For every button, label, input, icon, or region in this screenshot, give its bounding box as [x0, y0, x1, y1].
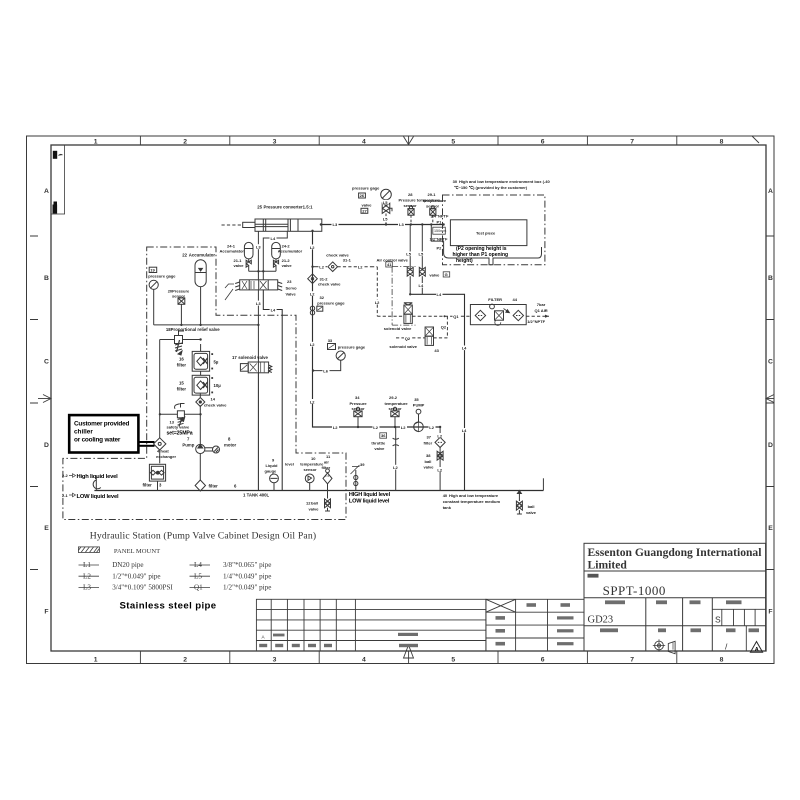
svg-text:High liquid level: High liquid level: [77, 474, 119, 480]
svg-text:valve: valve: [234, 263, 245, 268]
test tank under test piece: [444, 241, 542, 265]
svg-text:L2: L2: [310, 399, 315, 404]
svg-text:Accumulator: Accumulator: [220, 249, 245, 254]
svg-text:1/2"*0.049" pipe: 1/2"*0.049" pipe: [112, 572, 160, 580]
filter 6: [195, 480, 205, 491]
svg-text:safety valve: safety valve: [167, 425, 190, 430]
svg-text:39: 39: [360, 462, 365, 467]
approval table: [486, 599, 584, 651]
gauge manifold wire: [154, 324, 259, 326]
Q1 dashed air line: [377, 315, 549, 317]
zone numbers top: [44, 139, 773, 664]
valve 21-1: [246, 260, 251, 271]
svg-text:5: 5: [451, 139, 455, 146]
svg-text:31-1: 31-1: [343, 258, 352, 263]
svg-text:7: 7: [630, 139, 634, 146]
svg-text:sensor: sensor: [389, 406, 403, 411]
svg-text:sensor: sensor: [404, 203, 418, 208]
float sensor: [93, 477, 101, 491]
svg-text:High and low temperature envir: High and low temperature environment box…: [459, 179, 550, 184]
project name: [588, 574, 599, 578]
svg-text:throttle: throttle: [371, 440, 386, 445]
svg-text:1/2"*0.049" pipe: 1/2"*0.049" pipe: [223, 584, 271, 592]
safety valve 13: [160, 404, 201, 427]
svg-text:DN20 pipe: DN20 pipe: [112, 561, 143, 569]
temperature sensor 29-1: [430, 206, 436, 225]
air filter 11: [323, 469, 332, 491]
svg-text:Servo: Servo: [286, 285, 298, 290]
svg-text:23: 23: [287, 279, 292, 284]
svg-text:7: 7: [630, 657, 634, 664]
svg-text:37: 37: [427, 435, 432, 440]
svg-text:28: 28: [408, 192, 413, 197]
filter 3: [149, 464, 165, 490]
cylinder port B line: [263, 231, 287, 279]
svg-text:16: 16: [179, 357, 184, 362]
svg-text:7bar: 7bar: [537, 302, 546, 307]
revision table: [256, 599, 486, 651]
svg-text:℃~150 ℃) (provided by the cust: ℃~150 ℃) (provided by the customer): [454, 185, 528, 190]
svg-text:13: 13: [170, 419, 175, 424]
solenoid valve 43: [425, 327, 433, 345]
svg-text:10: 10: [311, 456, 316, 461]
solenoid valve 41: [404, 303, 412, 324]
svg-text:Accumulator: Accumulator: [189, 253, 216, 258]
svg-text:L4: L4: [271, 307, 276, 312]
svg-text:Pressure: Pressure: [350, 401, 368, 406]
svg-text:Accumulator: Accumulator: [278, 249, 303, 254]
svg-text:Q1 AIR: Q1 AIR: [535, 308, 548, 313]
svg-text:Q1: Q1: [453, 314, 459, 319]
svg-text:Customer provided: Customer provided: [74, 421, 129, 428]
svg-text:10µ: 10µ: [214, 383, 222, 388]
svg-text:Essenton Guangdong Internation: Essenton Guangdong International: [588, 546, 763, 559]
filter 16: [192, 344, 209, 371]
svg-text:15: 15: [179, 380, 184, 385]
servo valve 23: [225, 280, 282, 300]
svg-text:Q2: Q2: [405, 336, 411, 341]
chiller double pipe to heat exchanger: [139, 442, 155, 446]
svg-text:44: 44: [513, 297, 518, 302]
svg-text:1/4"*0.049" pipe: 1/4"*0.049" pipe: [223, 572, 271, 580]
svg-text:sensor: sensor: [304, 467, 318, 472]
svg-text:Limited: Limited: [588, 558, 628, 571]
svg-text:19: 19: [150, 267, 155, 272]
solenoid valve 17: [240, 362, 271, 491]
svg-text:Hydraulic Station (Pump Valve: Hydraulic Station (Pump Valve Cabinet De…: [90, 531, 317, 542]
svg-text:L5: L5: [383, 217, 388, 222]
zone ticks top: [30, 136, 774, 664]
svg-text:motor: motor: [224, 443, 237, 448]
L4 header to tank 40: [410, 294, 464, 490]
svg-text:3/8"*0.065" pipe: 3/8"*0.065" pipe: [223, 561, 271, 569]
svg-text:3/4"NPTF: 3/4"NPTF: [431, 213, 449, 218]
svg-text:22: 22: [182, 253, 187, 258]
test piece: [450, 220, 527, 246]
svg-text:air: air: [324, 460, 329, 465]
svg-text:exchanger: exchanger: [156, 454, 176, 459]
svg-text:2: 2: [183, 657, 187, 664]
svg-text:check valve: check valve: [318, 282, 341, 287]
svg-text:gauge: gauge: [265, 468, 278, 473]
svg-text:LOW liquid level: LOW liquid level: [77, 494, 119, 500]
svg-text:or cooling water: or cooling water: [74, 437, 121, 444]
svg-text:1 TANK 400L: 1 TANK 400L: [243, 492, 270, 497]
svg-text:D: D: [44, 442, 49, 449]
svg-text:pressure gage: pressure gage: [148, 274, 176, 279]
svg-text:solenoid valve: solenoid valve: [238, 355, 268, 360]
svg-text:pressure gage: pressure gage: [352, 185, 380, 190]
ball valve (tank 40 drain): [516, 491, 522, 515]
svg-text:18Proportional relief valve: 18Proportional relief valve: [166, 327, 220, 332]
svg-text:38: 38: [426, 453, 431, 458]
svg-text:E: E: [768, 525, 773, 532]
svg-text:solenoid valve: solenoid valve: [389, 344, 417, 349]
svg-text:solenoid valve: solenoid valve: [384, 326, 412, 331]
svg-text:26: 26: [360, 193, 365, 198]
svg-text:C: C: [44, 359, 49, 366]
svg-text:5: 5: [451, 657, 455, 664]
svg-text:Test piece: Test piece: [476, 230, 496, 235]
svg-text:SPPT-1000: SPPT-1000: [603, 583, 666, 598]
svg-text:41: 41: [387, 262, 392, 267]
accumulator 22: [195, 260, 206, 325]
svg-text:P2: P2: [437, 245, 443, 250]
pressure gage 32: [310, 306, 323, 315]
svg-text:A: A: [768, 188, 773, 195]
pressure sensor 34: [354, 407, 362, 427]
circulation line L2 (y=427) labels: [332, 425, 339, 430]
svg-text:P1: P1: [437, 219, 443, 224]
centering marks: [38, 136, 774, 658]
svg-text:PANEL MOUNT: PANEL MOUNT: [114, 548, 160, 555]
svg-text:L2: L2: [401, 425, 406, 430]
check valve 14: [196, 394, 205, 407]
svg-text:L5: L5: [419, 252, 424, 257]
svg-text:sensor: sensor: [352, 406, 366, 411]
svg-text:E: E: [44, 525, 49, 532]
svg-text:filter: filter: [322, 465, 331, 470]
svg-text:L2: L2: [310, 245, 315, 250]
throttle valve 36: [393, 427, 399, 491]
ball valve 38: [437, 451, 443, 460]
svg-text:GD23: GD23: [588, 614, 614, 625]
svg-text:valve: valve: [526, 510, 537, 515]
heat exchanger 4: [154, 438, 166, 464]
svg-text:1: 1: [94, 657, 98, 664]
svg-text:F: F: [44, 609, 48, 616]
svg-text:FILTER: FILTER: [488, 297, 502, 302]
temperature sensor 29-2: [391, 407, 399, 427]
svg-text:L5: L5: [383, 200, 388, 205]
check valve 31-2: [308, 274, 318, 284]
svg-text:height): height): [456, 258, 473, 264]
svg-text:heat: heat: [161, 449, 170, 454]
svg-text:B: B: [44, 275, 49, 282]
valve 42a drop: [407, 225, 413, 295]
pressure temperature sensor 28: [408, 206, 414, 225]
svg-text:L2: L2: [358, 265, 363, 270]
svg-text:ball: ball: [311, 501, 318, 506]
svg-text:35: 35: [414, 397, 419, 402]
svg-text:14: 14: [211, 397, 216, 402]
svg-text:ball: ball: [425, 459, 432, 464]
svg-text:6: 6: [541, 657, 545, 664]
svg-text:C: C: [768, 359, 773, 366]
svg-text:3: 3: [273, 139, 277, 146]
svg-text:valve: valve: [374, 446, 385, 451]
svg-text:check valve: check valve: [204, 402, 227, 407]
svg-text:ball: ball: [528, 504, 535, 509]
third angle projection symbol: [653, 639, 675, 653]
svg-text:set=25MPa: set=25MPa: [167, 430, 193, 436]
filter 37: [435, 427, 445, 491]
svg-text:Stainless steel pipe: Stainless steel pipe: [120, 601, 217, 612]
check valve 31-1: [313, 262, 378, 316]
piston rod dashed stub: [222, 224, 243, 226]
svg-text:L3: L3: [333, 222, 338, 227]
svg-text:temperature: temperature: [423, 198, 447, 203]
svg-text:L6: L6: [323, 369, 328, 374]
svg-text:L4: L4: [271, 236, 276, 241]
svg-text:36: 36: [381, 433, 386, 438]
svg-text:filter: filter: [177, 363, 187, 368]
svg-text:1/2"NPTF: 1/2"NPTF: [430, 236, 448, 241]
svg-text:pressure gage: pressure gage: [317, 301, 345, 306]
svg-text:L4: L4: [419, 283, 424, 288]
pressure sensor 20: [178, 298, 185, 325]
environment box 30: [443, 195, 545, 265]
valve 42b drop: [419, 225, 425, 295]
svg-text:40: 40: [443, 493, 448, 498]
svg-text:A: A: [755, 647, 759, 653]
svg-text:G: G: [445, 272, 448, 277]
pressure gage 33: [313, 344, 345, 371]
svg-text:L4: L4: [462, 428, 467, 433]
svg-text:L2: L2: [375, 300, 380, 305]
svg-text:17: 17: [232, 355, 237, 360]
svg-text:level: level: [285, 461, 294, 466]
svg-text:8: 8: [720, 139, 724, 146]
tank 1 top line: [94, 490, 543, 492]
ball valve 12: [325, 491, 331, 512]
svg-text:29-2: 29-2: [389, 395, 398, 400]
svg-text:filter: filter: [209, 483, 219, 488]
svg-text:sensor: sensor: [426, 204, 440, 209]
svg-text:L2: L2: [437, 433, 442, 438]
pressure gage 19: [149, 267, 158, 325]
cylinder port A line: [257, 231, 259, 279]
svg-text:3: 3: [273, 657, 277, 664]
svg-text:A: A: [44, 188, 49, 195]
pump 7: [196, 405, 205, 480]
svg-text:L2: L2: [437, 467, 442, 472]
svg-text:30: 30: [453, 179, 458, 184]
svg-text:constant temperature medium: constant temperature medium: [443, 499, 501, 504]
svg-text:L3: L3: [256, 245, 261, 250]
pressure converter 25 cylinder: [243, 219, 322, 231]
corner reference box: [51, 145, 65, 214]
svg-text:pressure gage: pressure gage: [338, 344, 366, 349]
svg-text:chiller: chiller: [74, 429, 93, 436]
svg-text:25: 25: [257, 205, 262, 210]
svg-text:L2: L2: [310, 342, 315, 347]
panel mount hatch: [78, 547, 99, 553]
svg-text:Pressure converter1.5:1: Pressure converter1.5:1: [264, 205, 314, 210]
svg-text:filter: filter: [143, 483, 153, 488]
proportional relief valve 18: [160, 331, 201, 438]
svg-text:150mm: 150mm: [434, 229, 446, 233]
svg-text:6: 6: [541, 139, 545, 146]
P2 drop wire: [431, 225, 443, 242]
svg-text:8: 8: [720, 657, 724, 664]
svg-text:High and low temperature: High and low temperature: [449, 493, 499, 498]
svg-text:S: S: [715, 615, 721, 625]
motor 8: [205, 446, 220, 453]
temperature sensor 10: [305, 474, 314, 491]
pressure gage 26: [359, 189, 392, 206]
svg-text:L2: L2: [373, 425, 378, 430]
svg-text:B: B: [768, 275, 773, 282]
svg-text:3/4"*0.109" 5800PSI: 3/4"*0.109" 5800PSI: [112, 584, 173, 592]
filter regulator 44: [470, 304, 526, 325]
svg-text:1: 1: [94, 139, 98, 146]
svg-text:4: 4: [362, 139, 366, 146]
svg-text:tank: tank: [443, 505, 452, 510]
svg-text:L4: L4: [437, 292, 442, 297]
accumulator 24-1: [244, 242, 253, 262]
svg-text:32: 32: [320, 295, 325, 300]
svg-text:L3: L3: [256, 301, 261, 306]
main pressure line L3: [322, 224, 444, 226]
svg-text:PUMP: PUMP: [413, 403, 425, 408]
svg-text:2-2: 2-2: [62, 473, 69, 478]
svg-text:Liquid: Liquid: [266, 463, 279, 468]
accumulator header wire: [249, 270, 276, 272]
svg-text:L2: L2: [393, 465, 398, 470]
svg-text:L2: L2: [319, 265, 324, 270]
svg-text:valve: valve: [362, 202, 373, 207]
valve 21-2: [273, 260, 278, 271]
svg-text:5µ: 5µ: [214, 359, 219, 364]
svg-text:LOW liquid level: LOW liquid level: [349, 499, 390, 505]
tank 40 stub: [542, 478, 544, 490]
svg-text:Q2: Q2: [441, 325, 447, 330]
valve 27: [361, 203, 392, 224]
svg-text:Pump: Pump: [182, 443, 194, 448]
svg-text:valve: valve: [429, 272, 440, 277]
customer chiller black box: [69, 415, 138, 452]
svg-text:27: 27: [362, 208, 367, 213]
drawing frame: [27, 136, 775, 664]
liquid gauge 9: [270, 474, 279, 491]
servo A/B wires down: [258, 290, 282, 491]
svg-text:temperature: temperature: [385, 401, 409, 406]
cylinder right port line: [313, 231, 441, 427]
svg-text:F: F: [768, 609, 772, 616]
svg-text:filter: filter: [177, 386, 187, 391]
svg-text:2-1: 2-1: [62, 493, 69, 498]
svg-text:L2: L2: [429, 425, 434, 430]
svg-text:2: 2: [183, 139, 187, 146]
pipe legend: [83, 561, 271, 591]
svg-text:sensor: sensor: [172, 293, 186, 298]
table header blobs: [600, 600, 759, 632]
svg-text:43: 43: [434, 348, 439, 353]
svg-text:D: D: [768, 442, 773, 449]
svg-text:HIGH liquid level: HIGH liquid level: [349, 492, 391, 498]
svg-text:4: 4: [362, 657, 366, 664]
svg-text:L2: L2: [333, 425, 338, 430]
svg-text:valve: valve: [282, 263, 293, 268]
svg-text:29-1: 29-1: [428, 192, 437, 197]
svg-text:33: 33: [328, 338, 333, 343]
svg-text:L5: L5: [406, 252, 411, 257]
svg-text:L3: L3: [399, 222, 404, 227]
hydraulic station dash-dot boundary: [63, 247, 346, 520]
svg-text:1/2"NPTF: 1/2"NPTF: [527, 319, 545, 324]
circulating pump 35: [414, 409, 424, 431]
svg-text:temperature: temperature: [300, 461, 324, 466]
svg-text:L2: L2: [310, 292, 315, 297]
svg-text:filter: filter: [424, 440, 433, 445]
accumulator 24-2: [272, 242, 281, 262]
svg-text:Valve: Valve: [286, 292, 297, 297]
svg-text:L4: L4: [462, 346, 467, 351]
svg-text:34: 34: [355, 395, 360, 400]
svg-text:valve: valve: [424, 465, 435, 470]
svg-text:valve: valve: [309, 506, 320, 511]
title block: [584, 543, 766, 651]
filter 15: [192, 371, 209, 395]
